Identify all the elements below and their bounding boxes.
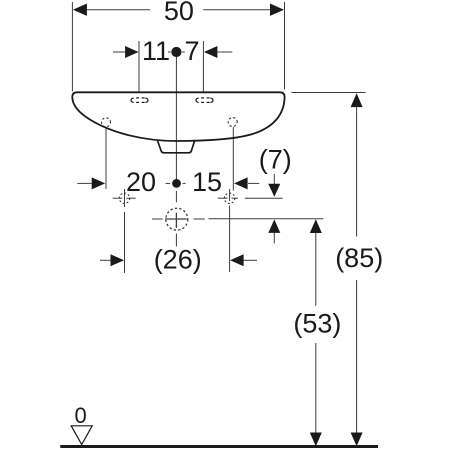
svg-text:50: 50: [164, 0, 194, 26]
svg-text:(85): (85): [335, 243, 383, 273]
svg-text:(26): (26): [154, 245, 202, 275]
svg-text:7: 7: [184, 36, 199, 66]
svg-text:20: 20: [126, 167, 156, 197]
svg-text:(53): (53): [293, 309, 341, 339]
svg-text:(7): (7): [259, 145, 292, 175]
svg-text:0: 0: [74, 403, 86, 428]
svg-text:15: 15: [192, 167, 222, 197]
svg-text:11: 11: [142, 36, 170, 66]
